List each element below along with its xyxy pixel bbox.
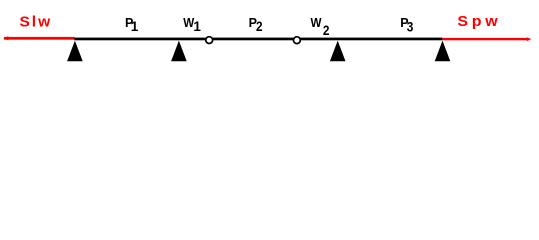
label P3 — [400, 16, 414, 34]
label P2 — [249, 16, 263, 34]
support 3 (pinned triangle) — [330, 41, 346, 62]
hinge W1 (circle joint) — [206, 37, 213, 44]
arrowhead left end — [3, 36, 8, 40]
hinge W2 (circle joint) — [294, 37, 301, 44]
wire: left cantilever segment (red) — [4, 37, 75, 40]
support 1 (pinned triangle, left) — [67, 41, 83, 62]
arrowhead right end — [527, 37, 532, 41]
support 4 (pinned triangle, right) — [435, 41, 451, 62]
svg-text:1: 1 — [193, 19, 201, 34]
label W1 — [183, 16, 201, 34]
svg-text:1: 1 — [131, 19, 139, 34]
wire: right cantilever segment (red) — [442, 38, 527, 40]
support 2 (pinned triangle) — [171, 41, 187, 62]
svg-text:2: 2 — [323, 23, 330, 38]
svg-text:Spw: Spw — [457, 13, 501, 30]
svg-text:2: 2 — [256, 19, 263, 34]
label W2 — [311, 16, 330, 38]
wire: main beam span (black) — [74, 38, 442, 41]
label P1 — [125, 16, 139, 34]
svg-text:W: W — [311, 16, 322, 30]
svg-text:3: 3 — [407, 19, 414, 34]
svg-text:Slw: Slw — [20, 14, 53, 31]
